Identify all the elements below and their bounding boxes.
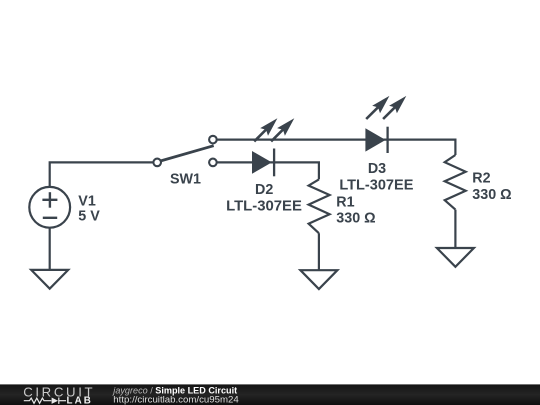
footer bar [0,384,540,405]
label D3 [339,161,413,193]
D2 light arrow 1 [254,129,266,141]
wire R2 bottom to ground [454,210,456,248]
LED D2 [252,118,294,176]
wire top branch SW1 to D3 to R2 [217,140,456,155]
switch throw terminal bottom [209,159,217,167]
wire R1 bottom to ground [318,233,320,270]
D3 light arrow 1 [366,107,378,119]
svg-text:R2: R2 [472,171,490,187]
ground (R2) [437,248,474,267]
ground (R1) [300,270,337,289]
CircuitLab logo mini schematic [24,398,66,404]
svg-text:http://circuitlab.com/cu95m24: http://circuitlab.com/cu95m24 [113,395,238,405]
svg-text:D3: D3 [368,161,386,177]
voltage source V1 [29,187,70,228]
resistor R2 [445,155,466,210]
wire bottom branch SW1 to D2 to R1 [217,162,319,179]
svg-text:D2: D2 [255,182,273,198]
LED D3 [365,96,406,153]
wire V1 bottom to ground [49,227,51,270]
label D2 [226,182,302,215]
svg-text:LTL-307EE: LTL-307EE [339,177,413,193]
switch SW1 [153,136,216,166]
svg-text:330 Ω: 330 Ω [472,187,511,203]
label V1 value [78,194,100,225]
switch blade [161,146,214,161]
svg-text:LTL-307EE: LTL-307EE [226,199,302,215]
resistor R1 [309,179,330,233]
D2 light arrow 2 [271,129,283,141]
label R1 [336,194,375,226]
svg-text:SW1: SW1 [170,171,201,187]
switch pole terminal [153,159,161,167]
svg-text:330 Ω: 330 Ω [336,211,375,227]
svg-text:LAB: LAB [67,395,93,405]
switch throw terminal top [209,136,217,144]
svg-text:5 V: 5 V [78,209,100,225]
D3 light arrow 2 [383,107,395,119]
ground (V1) [31,270,68,289]
wire V1 top to SW1 [50,162,154,188]
svg-text:V1: V1 [78,194,96,210]
label R2 [472,171,511,203]
svg-text:R1: R1 [336,194,354,210]
